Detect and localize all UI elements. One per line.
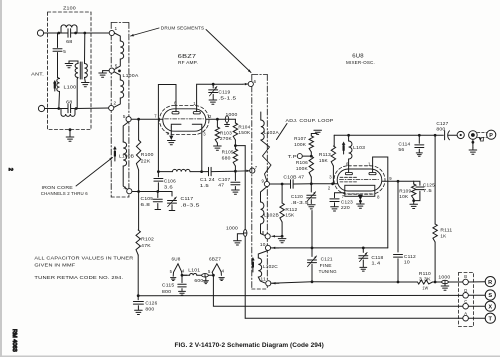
wire feedthrough ground lead [237,234,243,241]
contact 2 [109,101,117,111]
wire V1 grid vertical [157,119,159,171]
resistor R100 [136,119,140,191]
svg-text:ADJ. COUP. LOOP: ADJ. COUP. LOOP [286,118,334,123]
wire primary bottom [76,78,79,109]
capacitor C121 fine tuning [308,248,317,282]
contact 5 (drum1) [109,63,118,73]
svg-text:1: 1 [115,26,118,31]
drum segment rail 1 right [128,23,130,198]
svg-text:4: 4 [222,269,225,274]
svg-text:ANT.: ANT. [31,72,44,77]
ground (C118) [360,267,367,271]
caption [175,342,324,349]
label IRON CORE CHANNELS 2 THRU 6 [41,185,88,196]
svg-text:800: 800 [145,307,154,312]
label 600 (C116) [194,278,203,283]
wire V1 cathode b down [201,127,203,172]
pin 6 label (V2) [346,162,349,167]
svg-text:C112: C112 [404,254,416,259]
ground (output feedthrough) [441,286,449,290]
resistor R102 [136,192,140,296]
svg-text:5: 5 [208,269,211,274]
drum 1 bottom bracket [111,196,129,198]
label 6BZ7 (heater) [209,256,221,261]
ground (C119) [209,100,217,104]
label C121 FINE TUNING [319,257,337,274]
svg-text:3.3K: 3.3K [419,277,431,282]
svg-text:A: A [464,311,467,316]
svg-text:L102B: L102B [264,213,279,218]
contact A [463,311,469,321]
feedthrough 1000 (plate) [225,116,230,127]
coil interstage [173,169,191,171]
svg-text:7: 7 [255,165,258,170]
label C126 800 [145,301,157,312]
svg-text:220: 220 [341,205,350,210]
label L100 [64,85,77,90]
drum segment rail 1 left [110,23,112,198]
ground (C123) [331,207,339,211]
wire to contact 7 (arrow) [235,170,249,173]
label L103 [353,145,365,150]
capacitor 5 [53,33,62,78]
svg-text:C106: C106 [164,179,176,184]
contact C [463,299,469,309]
svg-text:L100: L100 [64,85,77,90]
pin 2 label [209,114,212,119]
svg-text:47K: 47K [141,243,151,248]
node C105 top [156,190,159,193]
resistor R109 [412,181,416,200]
ground (contact 5) [99,71,107,78]
wire grid row to tube [333,183,338,185]
B+ rail (top) [334,134,435,136]
pointer coup loop [277,124,288,140]
wire C5 top [58,78,60,79]
pin 1 label (V2) [368,162,371,167]
label 1000 (plate) [226,112,238,117]
svg-text:C1 24: C1 24 [200,177,215,182]
svg-text:800: 800 [162,289,172,294]
terminal strip box (dashed) [459,273,474,327]
adjustable coupling loop [261,140,271,181]
feedthrough 1000 (output) [442,280,449,285]
node B+ divider [234,144,237,147]
terminal X [485,301,495,311]
label R107 100K [294,136,306,147]
resistor R104 [233,119,237,145]
label L100B [119,154,134,159]
wire contact8 stub [272,235,282,238]
svg-text:100K: 100K [296,166,308,171]
node C126 top [137,294,140,297]
svg-text:TUNING: TUNING [319,269,337,274]
wire coil leads [158,171,201,173]
pin 7 label (V2) [342,194,345,199]
pin 5 label (heater V2) [170,269,173,274]
label 1000 (B+) [226,225,238,230]
svg-text:11: 11 [260,277,266,282]
RM 4063 (rotated) [11,329,17,352]
contact 10 [260,242,271,250]
label C108 47 [283,174,304,179]
contact 5 (RF grid) [123,114,131,122]
svg-text:L102A: L102A [264,130,279,135]
label 6U8 MIXER-OSC. [346,54,375,66]
wire osc tank down [397,181,399,252]
terminal ANT lower [38,105,44,111]
ground (C115) [179,291,186,295]
svg-text:4: 4 [182,269,185,274]
svg-text:47: 47 [218,183,224,188]
capacitor C117 (variable) [168,192,177,211]
svg-text:R112: R112 [285,207,297,212]
label 6BZ7 RF AMP [178,54,198,65]
svg-text:C107: C107 [218,177,230,182]
svg-text:C123: C123 [341,199,353,204]
svg-text:C: C [464,299,467,304]
resistor R110 [418,280,433,284]
node coil left [157,170,160,173]
node R111 bottom [434,281,437,284]
label R102 47K [141,237,154,248]
node C121 bottom [311,280,314,283]
svg-text:1: 1 [193,101,196,106]
capacitor C118 (variable) [359,248,368,267]
ground (heater V1 pin4) [219,278,224,281]
coil L101 [182,273,197,275]
node L100A tap [118,70,121,73]
label C112 10 [404,254,416,265]
ground (Z100 shield) [66,137,74,141]
coil L100B [123,122,129,191]
svg-text:R107: R107 [294,136,306,141]
coil L100 (slug tuned) [57,79,60,109]
capacitor C112 [394,255,403,283]
connector dashes to P [477,133,486,138]
ground (heater V2 pin5) [171,278,176,281]
label C123 220 [341,199,353,210]
wire pin1 osc plate [373,157,388,248]
svg-text:9: 9 [262,178,265,183]
svg-text:5: 5 [115,63,118,68]
svg-text:7: 7 [154,114,157,119]
svg-text:1000: 1000 [226,225,238,230]
node C119 tap [212,83,215,86]
label C118 1.4 [371,255,383,266]
node TP [310,155,313,158]
wire pin9 row [382,180,414,182]
node R103 top [216,118,219,121]
wire ANT lower to Z100 [45,108,59,110]
label L100A [123,73,140,78]
label C119 .5-1.5 [218,90,237,101]
drum segment rail 2 right [266,75,268,290]
contact D [463,288,469,298]
terminal T [485,313,495,323]
pin 8 label (V2) [377,194,380,199]
node pin9 branch [397,180,400,183]
capacitor 68 (top series) [59,29,85,37]
wire primary top to ground [69,61,78,64]
label C127 800 [436,121,448,132]
svg-text:8: 8 [167,131,170,136]
pin 4 label (heater V1) [222,269,225,274]
pin 3 label [203,131,206,136]
svg-text:S: S [488,293,492,299]
tube V2 cathode box [345,185,375,196]
tube V1 shield (dashed) [160,106,210,135]
svg-text:R105: R105 [222,150,234,155]
capacitor 68 (bottom series) [59,104,76,112]
label R106 100K [296,160,308,171]
terminal ANT upper [37,30,43,36]
node top-left [57,32,60,35]
svg-text:10: 10 [260,242,266,247]
svg-text:68: 68 [66,99,73,104]
svg-text:C118: C118 [371,255,383,260]
ground (V2 cathode) [357,204,365,208]
svg-text:C126: C126 [145,301,157,306]
svg-text:R102: R102 [141,237,154,242]
wire B+ vertical [244,146,246,319]
svg-text:1000: 1000 [438,275,450,280]
wire shield to ground [69,130,71,137]
svg-text:X: X [488,304,492,310]
cathode V1a to ground arrow [169,127,173,140]
tube V1 grid (dash-dot) [165,118,204,120]
svg-text:C115: C115 [162,282,175,287]
connector inner [457,131,464,138]
svg-text:2: 2 [328,185,331,190]
node R100 top [137,118,140,121]
svg-text:600: 600 [194,278,203,283]
osc grid wire [270,183,290,185]
terminal R [485,277,495,287]
capacitor C126 [133,296,143,310]
slug of L102C [251,257,255,272]
pin 1 label [193,101,196,106]
label Z100 [63,6,76,11]
ground (C116) [203,277,208,284]
resistor R113 [331,146,335,184]
label C106 3.6 [164,179,176,190]
wire contact10 arrow [272,247,279,250]
cathode arrow to ground [358,195,363,204]
svg-text:R100: R100 [141,152,154,157]
label C117 .8-3.5 [181,196,200,207]
capacitor C119 (variable) [209,84,218,99]
label 68 (bottom) [66,99,73,104]
node B+ right corner [434,134,437,137]
svg-text:R103: R103 [220,130,232,135]
tube V2 shield (dashed) [334,166,385,194]
connector contact arrow [479,137,484,141]
ground (B+ feedthrough) [234,241,242,245]
svg-text:2: 2 [7,168,13,171]
svg-text:L102C: L102C [263,264,278,269]
coil (bottom shunt) in Z100 [61,109,75,117]
svg-text:R109: R109 [399,188,411,193]
label ANT. [31,72,44,77]
wire A to T [468,317,485,319]
svg-text:T: T [488,316,492,322]
resistor R103 [215,119,219,145]
B+ wire (T row) [245,317,463,319]
svg-text:.8-3.5: .8-3.5 [291,200,310,205]
label L102A [264,130,279,135]
svg-text:C125: C125 [423,182,435,187]
svg-text:1.5: 1.5 [200,183,209,188]
transformer L100 core [80,62,82,79]
contact 8 [262,230,270,239]
contact 11 [260,277,271,286]
ground (transformer primary) [65,64,73,68]
svg-text:ALL CAPACITOR VALUES IN TUNE: ALL CAPACITOR VALUES IN TUNER [34,255,133,260]
svg-text:15K: 15K [285,213,294,218]
svg-text:L101: L101 [188,268,200,273]
svg-text:D: D [464,288,467,293]
svg-text:10K: 10K [399,194,408,199]
svg-text:5: 5 [170,269,173,274]
tube V1 plate b [193,112,200,114]
node top-mid [74,32,77,35]
ground (R109) [410,201,418,209]
resistor R111 [433,135,437,282]
wire D to S [468,294,485,296]
contact 9 [262,178,270,186]
svg-text:6U8: 6U8 [352,54,364,60]
heater V2 symbol [173,264,182,276]
svg-text:C10B 47: C10B 47 [283,174,304,179]
svg-text:GIVEN IN MMF: GIVEN IN MMF [34,263,75,268]
label R112 15K [285,207,297,218]
svg-text:270K: 270K [220,136,232,141]
svg-text:1.4: 1.4 [371,261,380,266]
label C107 47 [218,177,230,188]
svg-text:T.P: T.P [288,154,297,159]
svg-text:3.6: 3.6 [164,184,173,189]
capacitor C106 [154,172,163,192]
pin 7 label [154,114,157,119]
wire pin1 to contact 6 [197,83,248,112]
shield box Z100 (dashed) [48,12,92,130]
wire C to X [468,305,485,307]
bottom wire (R terminal row) [271,282,463,284]
svg-text:800: 800 [436,127,445,132]
capacitor C120 (variable) [307,184,316,209]
connector outer [469,131,478,140]
contact B [463,274,469,285]
svg-text:4: 4 [124,186,127,191]
svg-text:FIG. 2 V-14170-2 Schematic D: FIG. 2 V-14170-2 Schematic Diagram (Code… [175,342,324,349]
node R100 bottom [137,190,140,193]
node R112 bottom [281,235,284,238]
svg-text:R104: R104 [238,124,250,129]
svg-text:150K: 150K [238,130,250,135]
contact 4 [124,186,132,194]
svg-text:.8-3.5: .8-3.5 [181,202,200,207]
contact 1 [109,26,117,36]
svg-text:Z100: Z100 [63,6,76,11]
transformer L100 primary [75,64,78,78]
wire grid line [131,118,163,120]
capacitor C123 [330,193,345,207]
wire B+ feed right [235,145,245,147]
ground (C126) [135,310,143,314]
slug of L100B [113,146,117,161]
heater wire down [213,275,462,306]
svg-text:6U8: 6U8 [172,256,181,261]
svg-text:1000: 1000 [226,112,238,117]
label R103 270K [220,130,232,141]
ground (transformer secondary) [82,83,90,87]
coil L102C [258,251,268,283]
svg-text:C105: C105 [141,196,154,201]
pin 5 label (heater V1) [208,269,211,274]
pin 8 label [167,131,170,136]
label 6U8 (heater) [172,256,181,261]
pointer to drum 2 [206,30,251,73]
label DRUM SEGMENTS [161,26,205,31]
coil L102B [261,187,267,236]
wire ANT upper to Z100 [44,32,59,34]
label R109 10K [399,188,411,199]
svg-text:10: 10 [404,260,410,265]
svg-text:5: 5 [63,49,66,54]
wire R113 top [333,135,335,146]
tube V1 cathode b [192,124,202,127]
wire V1 plate row [206,118,235,120]
label R105 680 [222,150,234,161]
svg-text:2: 2 [114,101,117,106]
svg-text:15K: 15K [319,158,328,163]
node R112 top [281,183,284,186]
capacitor C107 [231,171,240,189]
label C114 56 [398,141,410,152]
contact 6 [248,79,256,86]
svg-text:22K: 22K [141,158,151,163]
svg-text:C120: C120 [291,194,303,199]
node bottom-left [57,107,60,110]
tube V1 plate a [172,112,179,114]
tube V2 plate b [369,172,376,174]
wire Z100 top to drum contact 1 [85,32,110,34]
pin 9 label (V2) [389,176,392,181]
coil L100A lower [114,72,124,108]
label R111 1K [440,228,452,239]
label R100 22K [141,152,154,163]
label L102C [263,264,278,269]
wire contact5 to ground [103,70,110,72]
node C118 top [362,247,365,250]
svg-text:DRUM SEGMENTS: DRUM SEGMENTS [161,26,205,31]
node heater V2 [181,274,184,277]
svg-text:100K: 100K [294,142,306,147]
heater V1 symbol [212,264,221,276]
capacitor C125 [414,181,424,200]
wire contact11 arrow [272,282,279,285]
drum 1 top bracket [111,22,129,24]
svg-text:TUNER RETMA CODE NO. 294.: TUNER RETMA CODE NO. 294. [34,275,123,280]
node shield ground [69,128,72,131]
resistor R112 [280,184,284,236]
node R109 bottom [412,199,415,202]
wire B to R [468,281,485,283]
svg-text:FINE: FINE [320,263,332,268]
wire C120 to osc tank [311,211,313,248]
resistor R105 [233,146,237,172]
